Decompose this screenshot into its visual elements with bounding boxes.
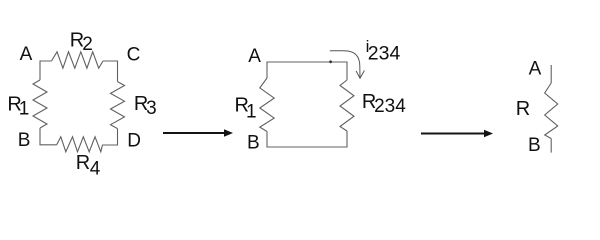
wire: top stub node A, right circuit xyxy=(550,65,552,83)
svg-text:A: A xyxy=(529,59,542,80)
node: junction dot on middle top wire xyxy=(329,60,332,63)
svg-text:R: R xyxy=(76,152,90,174)
wire: middle circuit top side A to top-right corner xyxy=(267,62,347,80)
svg-text:C: C xyxy=(127,45,141,66)
wire: R3 to node D corner, left circuit bottom-right xyxy=(103,129,118,145)
resistor R4 xyxy=(57,137,103,152)
wire: i234 curved current arrow xyxy=(330,51,360,78)
resistor R3 xyxy=(111,82,125,129)
svg-text:B: B xyxy=(247,133,260,154)
arrow: reduction step 1 xyxy=(163,129,493,137)
svg-text:A: A xyxy=(20,44,33,65)
wire: middle circuit bottom side B xyxy=(267,131,347,147)
svg-text:234: 234 xyxy=(368,43,401,65)
wire: node A corner to R2, left circuit top-left xyxy=(40,61,52,80)
resistor R1 xyxy=(33,80,47,128)
svg-text:4: 4 xyxy=(90,158,101,179)
svg-text:R: R xyxy=(516,98,530,120)
svg-text:A: A xyxy=(248,46,261,67)
svg-text:D: D xyxy=(127,131,141,152)
svg-text:B: B xyxy=(18,130,31,151)
wire: bottom stub node B, right circuit xyxy=(550,139,552,153)
svg-text:234: 234 xyxy=(374,96,406,117)
resistor R234 xyxy=(340,80,354,131)
svg-text:3: 3 xyxy=(146,98,157,119)
resistor R1 (middle) xyxy=(260,78,274,132)
wire: R2 to node C corner, left circuit top-right xyxy=(103,61,118,82)
resistor R (equivalent) xyxy=(545,83,558,139)
svg-text:2: 2 xyxy=(82,34,93,55)
svg-text:1: 1 xyxy=(246,102,257,123)
resistor R2 xyxy=(52,52,104,68)
svg-text:B: B xyxy=(528,135,541,156)
wire: R4 to node B corner, left circuit bottom-left xyxy=(40,128,57,145)
svg-text:1: 1 xyxy=(19,99,30,120)
arrow: reduction step 2 xyxy=(421,133,486,135)
